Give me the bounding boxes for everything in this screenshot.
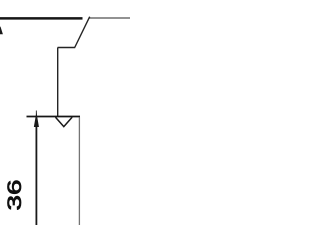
svg-text:36: 36	[4, 180, 26, 211]
clipped arrowhead at left edge	[0, 26, 3, 34]
dimension extension stub above surface	[35, 111, 37, 117]
V notch (center mark)	[56, 117, 73, 126]
vertical body line	[57, 48, 59, 117]
dimension arrowhead pointing up	[34, 112, 39, 127]
thick top edge line	[0, 17, 83, 20]
slanted chamfer line	[75, 17, 90, 48]
horizontal step line	[58, 47, 76, 49]
gray top-right line	[89, 17, 130, 19]
gray right vertical line	[78, 117, 80, 225]
top surface line of lower part	[27, 116, 81, 118]
dimension line	[35, 126, 37, 225]
